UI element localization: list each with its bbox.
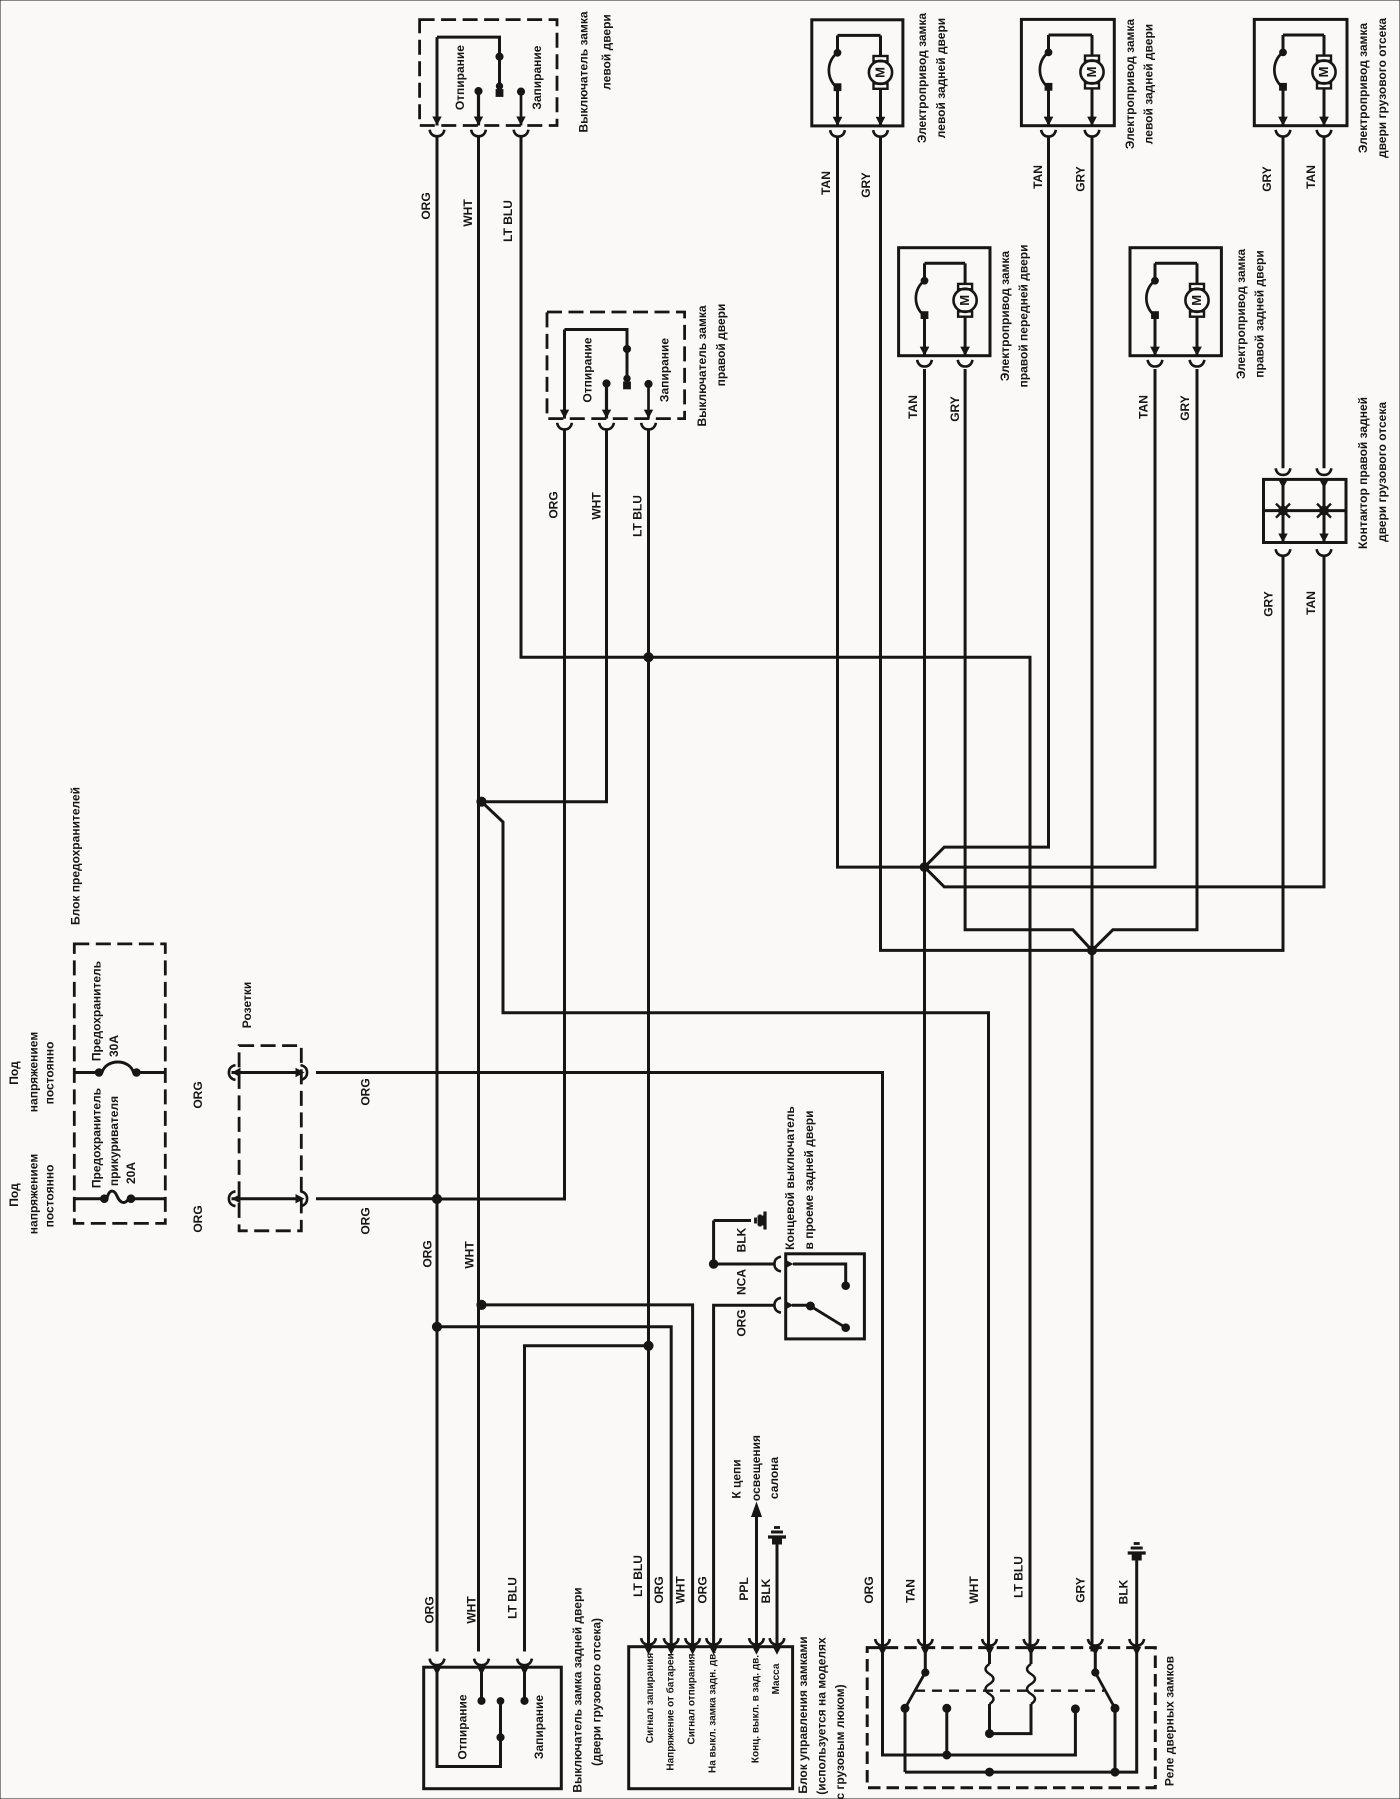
выключатель замка правой двери S2 lock contact	[644, 380, 653, 418]
wire LT BLU to relay	[649, 657, 1031, 1651]
svg-text:(используется на моделях: (используется на моделях	[815, 1637, 829, 1795]
wire BLK control unit ground	[768, 1528, 786, 1652]
электропривод замка левой задней двери M1 internal top wire	[838, 34, 881, 37]
A1 pin5 label	[751, 1655, 762, 1763]
label ORG right of sockets 1	[359, 1078, 373, 1105]
svg-text:ORG: ORG	[359, 1207, 373, 1234]
svg-text:GRY: GRY	[1262, 591, 1276, 617]
svg-text:GRY: GRY	[1074, 1577, 1088, 1603]
svg-text:Под: Под	[7, 1183, 21, 1207]
S4 upper contact wire BLK	[709, 1221, 849, 1290]
svg-text:ORG: ORG	[862, 1576, 876, 1603]
S3 input connectors	[430, 1659, 532, 1676]
svg-text:LT BLU: LT BLU	[631, 1555, 645, 1597]
svg-text:20А: 20А	[124, 1162, 138, 1184]
dashed box выключатель замка левой двери S1	[420, 20, 557, 126]
выключатель замка левой двери S1 text Запирание	[530, 45, 544, 109]
label WHT S2	[590, 492, 604, 520]
электропривод замка двери грузового отсека M3 position switch	[1274, 35, 1287, 126]
svg-text:Напряжение от батареи: Напряжение от батареи	[665, 1653, 677, 1770]
svg-text:ORG: ORG	[421, 1240, 435, 1267]
svg-text:GRY: GRY	[948, 396, 962, 422]
svg-text:Блок предохранителей: Блок предохранителей	[69, 787, 83, 925]
svg-text:Блок управления замками: Блок управления замками	[796, 1636, 810, 1793]
junction GRY	[1088, 946, 1097, 955]
junction WHT at 1305	[477, 1300, 486, 1309]
svg-text:ORG: ORG	[735, 1309, 749, 1336]
label ORG after F1	[191, 1081, 205, 1108]
label BLK ctrl	[759, 1578, 773, 1603]
K1 coil2	[990, 1648, 1036, 1734]
K1 switch2 blade	[1095, 1673, 1115, 1709]
K1 switch2 right contact	[1111, 1704, 1119, 1776]
label Розетки	[240, 982, 254, 1028]
svg-text:Выключатель замка задней двери: Выключатель замка задней двери	[571, 1587, 585, 1792]
K1 switch1 left contact	[901, 1704, 909, 1772]
contactor box X1	[1264, 479, 1347, 542]
svg-text:правой задней двери: правой задней двери	[1253, 250, 1267, 377]
label TAN M3	[1304, 165, 1318, 189]
junction LT BLU at 657	[644, 653, 653, 662]
label WHT S3	[465, 1596, 479, 1624]
svg-text:Сигнал запирания: Сигнал запирания	[645, 1653, 656, 1744]
fuse block dashed box	[74, 944, 165, 1224]
электропривод замка левой задней двери M2 position switch	[1040, 35, 1053, 126]
label BLK relay	[1117, 1579, 1131, 1604]
K1 switch1 blade	[905, 1673, 925, 1709]
label электропривод замка правой передней двери M4	[998, 245, 1031, 388]
junction LT BLU at 1346	[644, 1341, 653, 1350]
A1 pin4 label	[708, 1651, 719, 1773]
svg-text:TAN: TAN	[906, 395, 920, 419]
электропривод замка правой задней двери M5 position switch	[1146, 263, 1159, 355]
label ORG S1 top	[419, 192, 433, 219]
svg-text:ORG: ORG	[191, 1205, 205, 1232]
svg-text:Предохранитель: Предохранитель	[90, 1088, 104, 1188]
электропривод замка левой задней двери M1 position switch	[829, 35, 842, 126]
A1 pin3 label	[687, 1653, 698, 1744]
label LT BLU S1 top	[501, 200, 515, 242]
svg-text:Электропривод замка: Электропривод замка	[998, 251, 1012, 382]
rear door switch box S3	[424, 1667, 562, 1789]
motor M of электропривод замка правой задней двери M5	[1185, 263, 1208, 355]
svg-text:ORG: ORG	[652, 1576, 666, 1603]
S4 blade	[810, 1306, 849, 1331]
svg-text:напряжением: напряжением	[27, 1032, 41, 1113]
sockets connector bottom-right	[296, 1191, 308, 1206]
label GRY M2	[1074, 166, 1088, 192]
svg-text:Масса: Масса	[771, 1663, 782, 1694]
svg-text:Запирание: Запирание	[658, 338, 672, 402]
wire ORG branch to control unit	[437, 1327, 671, 1652]
X1 left pin GRY	[1276, 479, 1290, 542]
svg-text:M: M	[1084, 67, 1099, 78]
label S3	[571, 1587, 604, 1792]
wire TAN from M3 via contactor	[925, 556, 1325, 887]
электропривод замка правой передней двери M4 output connectors	[917, 347, 972, 367]
S3 lock contact	[521, 1667, 528, 1704]
label WHT S1 top	[461, 199, 475, 227]
svg-text:Отпирание: Отпирание	[456, 1694, 470, 1759]
label под напряжением постоянно 2	[7, 1154, 57, 1235]
wire ORG through sockets 1	[232, 1071, 297, 1074]
svg-text:WHT: WHT	[674, 1576, 688, 1604]
actuator box электропривод замка правой передней двери M4	[899, 248, 990, 356]
label ORG S4	[735, 1309, 749, 1336]
svg-text:в проеме задней двери: в проеме задней двери	[802, 1111, 816, 1250]
электропривод замка правой передней двери M4 position switch	[916, 263, 929, 355]
svg-text:салона: салона	[767, 1457, 781, 1500]
svg-text:LT BLU: LT BLU	[506, 1577, 520, 1619]
label LT BLU S2	[631, 495, 645, 537]
wire ORG through sockets 2	[232, 1197, 297, 1200]
wire TAN contactor top	[1323, 136, 1326, 468]
label ORG right of sockets 2	[359, 1207, 373, 1234]
выключатель замка левой двери S1 text Отпирание	[453, 45, 467, 110]
wire GRY from M3 via contactor	[1092, 556, 1283, 951]
svg-text:Сигнал отпирания: Сигнал отпирания	[687, 1653, 698, 1744]
label ORG mid	[421, 1240, 435, 1267]
wire BLK relay ground	[1128, 1544, 1146, 1653]
svg-text:(двери грузового отсека): (двери грузового отсека)	[590, 1618, 604, 1766]
svg-text:TAN: TAN	[819, 171, 833, 195]
wire LT BLU from S2	[647, 429, 650, 1651]
label ORG relay	[862, 1576, 876, 1603]
выключатель замка левой двери S1 lock contact	[516, 88, 525, 126]
label ORG after F2	[191, 1205, 205, 1232]
svg-text:правой двери: правой двери	[714, 304, 728, 387]
sockets connector top-left	[229, 1065, 241, 1080]
wire PPL to interior light	[751, 1502, 762, 1652]
выключатель замка правой двери S2 output connectors	[557, 423, 656, 430]
sockets connector top-right	[296, 1065, 308, 1080]
svg-text:Электропривод замка: Электропривод замка	[1123, 19, 1137, 150]
junction WHT at 802	[477, 797, 486, 806]
wire WHT from S2	[482, 429, 607, 801]
svg-text:WHT: WHT	[590, 492, 604, 520]
svg-text:Выключатель замка: Выключатель замка	[695, 305, 709, 426]
svg-text:левой задней двери: левой задней двери	[1142, 24, 1156, 144]
dashed box выключатель замка правой двери S2	[547, 312, 685, 419]
svg-text:левой задней двери: левой задней двери	[934, 18, 948, 138]
sockets dashed box	[239, 1046, 301, 1231]
выключатель замка правой двери S2 unlock contact	[602, 380, 611, 419]
svg-text:Отпирание: Отпирание	[581, 337, 595, 402]
label GRY M5	[1178, 395, 1192, 421]
wire WHT jog to relay	[482, 802, 989, 1652]
svg-text:ORG: ORG	[419, 192, 433, 219]
label NCA S4	[735, 1269, 749, 1295]
S4 ground	[714, 1212, 765, 1230]
label GRY M4	[948, 396, 962, 422]
label BLK S4	[735, 1227, 749, 1252]
svg-text:Предохранитель: Предохранитель	[90, 961, 104, 1061]
label WHT mid	[463, 1241, 477, 1269]
junction TAN	[920, 863, 929, 872]
svg-text:30А: 30А	[107, 1035, 121, 1057]
actuator box электропривод замка левой задней двери M2	[1021, 19, 1114, 125]
svg-text:M: M	[1316, 67, 1331, 78]
X1 connectors	[1276, 468, 1332, 556]
svg-text:NCA: NCA	[735, 1269, 749, 1295]
svg-text:На выкл. замка задн. дв.: На выкл. замка задн. дв.	[708, 1651, 719, 1773]
svg-text:TAN: TAN	[904, 1579, 918, 1603]
label ORG ctrl	[652, 1576, 666, 1603]
wire TAN from M2	[925, 136, 1049, 867]
svg-text:ORG: ORG	[696, 1576, 710, 1603]
K1 input connectors	[875, 1639, 1144, 1656]
label WHT ctrl	[674, 1576, 688, 1604]
выключатель замка левой двери S1 output connectors	[430, 130, 529, 137]
label fuse block	[69, 787, 83, 925]
label X1	[1356, 397, 1389, 549]
svg-text:напряжением: напряжением	[27, 1154, 41, 1235]
svg-text:Розетки: Розетки	[240, 982, 254, 1028]
motor M of электропривод замка левой задней двери M1	[869, 35, 892, 126]
wire GRY from M5	[1092, 369, 1197, 950]
label электропривод замка левой задней двери M2	[1123, 19, 1156, 150]
motor M of электропривод замка двери грузового отсека M3	[1312, 35, 1335, 126]
S3 unlock contact	[478, 1667, 485, 1704]
svg-text:LT BLU: LT BLU	[1012, 1556, 1026, 1598]
A1 input connectors	[641, 1638, 784, 1655]
A1 pin6 label	[771, 1663, 782, 1694]
label A1	[796, 1636, 847, 1799]
svg-text:TAN: TAN	[1137, 395, 1151, 419]
K1 ground rail	[905, 1652, 1137, 1776]
svg-text:BLK: BLK	[1117, 1579, 1131, 1604]
wire LT BLU branch to rear switch	[525, 1346, 649, 1652]
svg-text:BLK: BLK	[735, 1227, 749, 1252]
label электропривод замка левой задней двери M1	[915, 13, 948, 144]
электропривод замка левой задней двери M2 internal top wire	[1049, 34, 1093, 37]
svg-text:Концевой выключатель: Концевой выключатель	[783, 1106, 797, 1250]
wire WHT from S1	[477, 136, 480, 1651]
label F1	[90, 961, 122, 1061]
svg-text:Контактор правой задней: Контактор правой задней	[1356, 397, 1370, 549]
svg-text:Запирание: Запирание	[532, 1695, 546, 1759]
svg-text:M: M	[1189, 295, 1204, 306]
motor M of электропривод замка левой задней двери M2	[1080, 35, 1103, 126]
label K1	[1163, 1656, 1177, 1786]
электропривод замка двери грузового отсека M3 internal top wire	[1283, 34, 1324, 37]
svg-text:правой передней двери: правой передней двери	[1017, 245, 1031, 388]
svg-text:левой двери: левой двери	[600, 14, 614, 90]
wire WHT branch to control unit	[482, 1305, 693, 1652]
электропривод замка левой задней двери M2 output connectors	[1041, 117, 1099, 137]
K1 linkage dashed	[915, 1689, 1104, 1691]
label TAN M2	[1031, 165, 1045, 189]
K1 coil junction	[986, 1730, 994, 1738]
label LT BLU S3	[506, 1577, 520, 1619]
wire ORG fuse1 feed	[316, 1073, 883, 1652]
label ORG ctrl pin4	[696, 1576, 710, 1603]
svg-text:M: M	[957, 295, 972, 306]
actuator box электропривод замка правой задней двери M5	[1130, 248, 1221, 356]
svg-text:ORG: ORG	[423, 1596, 437, 1623]
label GRY M1	[859, 172, 873, 198]
svg-text:M: M	[872, 67, 887, 78]
svg-text:LT BLU: LT BLU	[631, 495, 645, 537]
fuse F2 20A	[76, 1191, 166, 1202]
svg-text:К цепи: К цепи	[730, 1459, 744, 1498]
svg-text:Конц. выкл. в зад. дв.: Конц. выкл. в зад. дв.	[751, 1655, 762, 1763]
выключатель замка левой двери S1 unlock contact	[474, 88, 483, 126]
K1 switch1 pivot	[922, 1648, 929, 1677]
svg-text:TAN: TAN	[1304, 165, 1318, 189]
S4 lower contact wire ORG	[714, 1298, 815, 1652]
label TAN M1	[819, 171, 833, 195]
label TAN below X1	[1304, 591, 1318, 615]
motor M of электропривод замка правой передней двери M4	[954, 263, 977, 355]
выключатель замка левой двери S1 common contact arm	[432, 37, 503, 125]
wire GRY from M1	[881, 136, 1093, 950]
label PPL	[737, 1577, 751, 1600]
svg-text:постоянно: постоянно	[43, 1042, 57, 1105]
control unit box A1	[629, 1647, 793, 1789]
svg-text:TAN: TAN	[1304, 591, 1318, 615]
svg-text:LT BLU: LT BLU	[501, 200, 515, 242]
sockets connector bottom-left	[229, 1191, 241, 1206]
svg-text:WHT: WHT	[465, 1596, 479, 1624]
электропривод замка правой задней двери M5 output connectors	[1148, 347, 1205, 367]
svg-text:Выключатель замка: Выключатель замка	[577, 11, 591, 132]
K1 switch2 pivot	[1092, 1648, 1099, 1677]
svg-text:ORG: ORG	[191, 1081, 205, 1108]
K1 coil1	[986, 1648, 994, 1734]
label S4	[783, 1106, 816, 1250]
label LT BLU ctrl	[631, 1555, 645, 1597]
X1 midline	[1264, 509, 1347, 512]
svg-text:ORG: ORG	[547, 491, 561, 518]
S3 text Запирание	[532, 1695, 546, 1759]
label электропривод замка двери грузового отсека M3	[1356, 18, 1389, 158]
wire TAN from M1	[838, 136, 925, 867]
wire ORG from S1	[436, 136, 439, 1651]
wire GRY from M4	[965, 369, 1092, 950]
svg-text:GRY: GRY	[1260, 166, 1274, 192]
svg-text:GRY: GRY	[1074, 166, 1088, 192]
svg-text:прикуривателя: прикуривателя	[107, 1096, 121, 1186]
svg-text:BLK: BLK	[759, 1578, 773, 1603]
S3 text Отпирание	[456, 1694, 470, 1759]
label S1	[577, 11, 614, 132]
svg-text:WHT: WHT	[461, 199, 475, 227]
svg-text:WHT: WHT	[967, 1576, 981, 1604]
label электропривод замка правой задней двери M5	[1234, 249, 1267, 380]
A1 pin1 label	[645, 1653, 656, 1744]
label GRY below X1	[1262, 591, 1276, 617]
wire TAN trunk M4 to relay	[923, 369, 926, 1652]
выключатель замка правой двери S2 common contact arm	[560, 330, 631, 419]
svg-text:постоянно: постоянно	[43, 1165, 57, 1228]
label WHT relay	[967, 1576, 981, 1604]
wire ORG fuse2 feed	[316, 1197, 437, 1200]
label F2	[90, 1088, 139, 1188]
wire ORG from S2	[437, 429, 565, 1199]
электропривод замка двери грузового отсека M3 output connectors	[1276, 117, 1332, 137]
label ORG S3	[423, 1596, 437, 1623]
S3 common arm	[437, 1667, 504, 1766]
K1 ORG rail	[883, 1648, 1080, 1755]
K1 switch1 right contact	[943, 1704, 951, 1759]
label к цепи освещения салона	[730, 1435, 782, 1501]
svg-text:ORG: ORG	[359, 1078, 373, 1105]
wire LT BLU from S1	[521, 136, 649, 657]
actuator box электропривод замка двери грузового отсека M3	[1254, 19, 1347, 125]
svg-text:GRY: GRY	[859, 172, 873, 198]
label TAN relay	[904, 1579, 918, 1603]
svg-text:PPL: PPL	[737, 1577, 751, 1600]
svg-text:WHT: WHT	[463, 1241, 477, 1269]
fuse F1 30A	[76, 1062, 166, 1076]
svg-text:Электропривод замка: Электропривод замка	[1356, 23, 1370, 154]
junction ORG at 1199	[432, 1194, 441, 1203]
электропривод замка левой задней двери M1 output connectors	[830, 117, 888, 137]
svg-text:TAN: TAN	[1031, 165, 1045, 189]
wire GRY contactor top	[1282, 136, 1285, 468]
A1 pin2 label	[665, 1653, 677, 1770]
actuator box электропривод замка левой задней двери M1	[812, 20, 903, 126]
svg-text:GRY: GRY	[1178, 395, 1192, 421]
выключатель замка правой двери S2 text Запирание	[658, 338, 672, 402]
wire TAN from M5	[925, 369, 1156, 867]
электропривод замка правой задней двери M5 internal top wire	[1155, 262, 1197, 265]
relay dashed box K1	[867, 1648, 1155, 1788]
svg-text:Отпирание: Отпирание	[453, 45, 467, 110]
выключатель замка правой двери S2 text Отпирание	[581, 337, 595, 402]
X1 right pin TAN	[1317, 479, 1331, 542]
label под напряжением постоянно 1	[7, 1032, 57, 1113]
svg-text:Реле дверных замков: Реле дверных замков	[1163, 1656, 1177, 1786]
svg-text:двери грузового отсека: двери грузового отсека	[1375, 18, 1389, 158]
svg-text:освещения: освещения	[749, 1435, 763, 1501]
label GRY M3	[1260, 166, 1274, 192]
svg-text:Электропривод замка: Электропривод замка	[915, 13, 929, 144]
label LT BLU relay	[1012, 1556, 1026, 1598]
svg-text:двери грузового отсека: двери грузового отсека	[1375, 402, 1389, 542]
svg-text:с грузовым люком): с грузовым люком)	[833, 1684, 847, 1799]
электропривод замка правой передней двери M4 internal top wire	[925, 262, 966, 265]
limit switch box S4	[786, 1254, 865, 1339]
label GRY relay	[1074, 1577, 1088, 1603]
label ORG S2	[547, 491, 561, 518]
label TAN M4	[906, 395, 920, 419]
svg-text:Под: Под	[7, 1061, 21, 1085]
junction ORG at 1327	[432, 1322, 441, 1331]
label TAN M5	[1137, 395, 1151, 419]
svg-text:Запирание: Запирание	[530, 45, 544, 109]
wire GRY trunk M2 to relay	[1091, 136, 1094, 1651]
label S2	[695, 304, 728, 427]
svg-text:Электропривод замка: Электропривод замка	[1234, 249, 1248, 380]
